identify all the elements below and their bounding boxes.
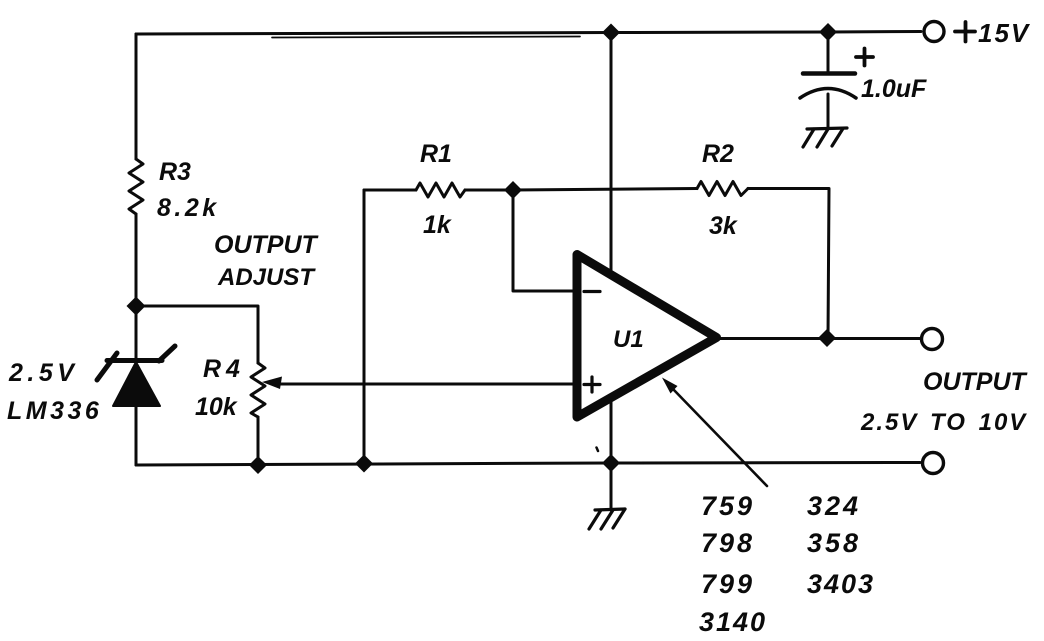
svg-text:1k: 1k	[423, 211, 452, 239]
op-amp U1 non-inverting input mark	[584, 377, 600, 392]
potentiometer R4 body	[251, 363, 265, 417]
capacitor C1 bottom lead	[827, 94, 830, 128]
svg-text:1.0uF: 1.0uF	[861, 75, 927, 103]
wire: R1 right lead to feedback node	[465, 189, 513, 192]
wire: top rail scan doubling artifact	[272, 37, 580, 38]
ground (capacitor)	[803, 128, 847, 147]
wire: op-amp supply vertical (passes behind U1)	[610, 33, 613, 464]
capacitor C1 positive plate	[803, 71, 855, 76]
wire: node A to R4 top	[136, 306, 258, 363]
wire: op-amp ground lead below rail	[610, 463, 613, 510]
svg-text:3403: 3403	[807, 569, 875, 599]
wire: R3 bottom to LM336 node	[135, 214, 138, 360]
svg-text:R3: R3	[159, 158, 191, 186]
capacitor C1 top lead	[827, 32, 830, 71]
ground (op-amp)	[589, 509, 625, 529]
wire: R2 left lead	[513, 189, 697, 191]
resistor R3	[129, 159, 143, 214]
svg-text:ADJUST: ADJUST	[217, 264, 316, 291]
svg-text:358: 358	[807, 528, 861, 558]
wire: R4 bottom to rail	[257, 417, 260, 465]
wire: top +15V rail	[136, 32, 921, 35]
junction node A (R3 / LM336 / R4 top)	[127, 297, 146, 316]
capacitor C1 curved plate	[800, 89, 856, 99]
svg-text:R4: R4	[203, 355, 245, 383]
svg-text:8.2k: 8.2k	[157, 194, 220, 222]
svg-text:2.5V: 2.5V	[8, 359, 78, 387]
op-amp U1 body	[577, 255, 717, 418]
svg-text:3140: 3140	[699, 607, 767, 637]
speck artifact near ground node	[597, 448, 599, 452]
label + of +15V (drawn plus)	[955, 22, 975, 42]
svg-text:3k: 3k	[709, 212, 738, 240]
wire: R4 wiper to op-amp + input	[277, 383, 577, 386]
potentiometer R4 wiper arrow	[262, 377, 282, 390]
wire: R1 left leg (from R1 down to rail)	[363, 190, 366, 464]
junction: R4 bottom on rail	[249, 456, 267, 474]
svg-text:2.5V TO 10V: 2.5V TO 10V	[860, 409, 1027, 436]
zener diode D1 (LM336) cathode bar	[97, 346, 175, 380]
junction: feedback node (R1/R2/inverting input)	[504, 181, 522, 199]
svg-text:R1: R1	[420, 140, 452, 168]
wire: op-amp output to OUTPUT terminal	[717, 337, 920, 340]
op-amp U1 inverting input mark	[584, 290, 600, 293]
wire: R2 right lead down to output node	[748, 189, 829, 339]
svg-text:R2: R2	[702, 140, 734, 168]
svg-text:15V: 15V	[978, 18, 1031, 48]
resistor R1	[416, 183, 465, 197]
junction: supply vertical on +15V rail	[602, 24, 620, 42]
terminal: +15V	[924, 22, 944, 42]
junction: op-amp output node	[818, 329, 836, 347]
svg-text:799: 799	[701, 569, 755, 599]
junction: capacitor tap on +15V rail	[819, 23, 837, 41]
wire: feedback node down to inverting input	[513, 190, 577, 291]
wire: left branch from top rail down to R3	[135, 34, 138, 159]
junction: R1 leg on rail	[355, 455, 373, 473]
svg-text:OUTPUT: OUTPUT	[214, 231, 320, 259]
zener diode D1 (LM336) anode triangle	[113, 362, 160, 406]
wire: bottom ground rail	[136, 463, 920, 466]
junction: op-amp ground on rail	[602, 454, 620, 472]
svg-text:U1: U1	[613, 326, 644, 353]
label capacitor polarity +	[856, 49, 873, 66]
terminal: OUTPUT	[922, 329, 943, 350]
svg-text:10k: 10k	[195, 393, 238, 421]
svg-text:324: 324	[807, 491, 861, 521]
wire: LM336 anode to bottom rail	[135, 362, 138, 465]
wire: R1 left lead	[364, 189, 416, 192]
resistor R2	[697, 182, 748, 196]
annotation arrow pointing at U1	[672, 388, 767, 486]
svg-text:OUTPUT: OUTPUT	[923, 368, 1029, 396]
svg-text:LM336: LM336	[7, 397, 102, 425]
terminal: output return (bottom rail)	[923, 453, 944, 474]
svg-text:759: 759	[701, 491, 755, 521]
svg-text:798: 798	[701, 528, 755, 558]
